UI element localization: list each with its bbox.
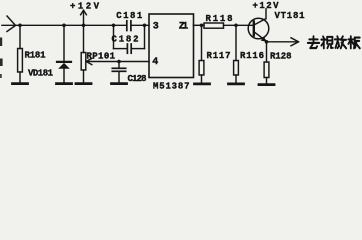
svg-text:4: 4 (152, 57, 158, 68)
svg-text:VD181: VD181 (28, 69, 54, 79)
svg-text:R181: R181 (25, 51, 47, 61)
svg-text:C181: C181 (116, 11, 143, 21)
svg-text:R118: R118 (206, 14, 233, 24)
svg-text:RP101: RP101 (87, 52, 116, 62)
svg-text:R128: R128 (270, 52, 292, 62)
svg-text:3: 3 (153, 22, 159, 33)
svg-text:VT181: VT181 (275, 11, 306, 21)
svg-text:+12V: +12V (253, 1, 280, 11)
svg-text:C182: C182 (112, 35, 139, 45)
svg-text:Z1: Z1 (179, 22, 189, 33)
svg-text:+12V: +12V (70, 2, 100, 12)
svg-text:M51387: M51387 (153, 82, 190, 91)
svg-text:R116: R116 (240, 51, 264, 61)
svg-text:R117: R117 (207, 51, 231, 61)
svg-text:C128: C128 (128, 74, 147, 84)
